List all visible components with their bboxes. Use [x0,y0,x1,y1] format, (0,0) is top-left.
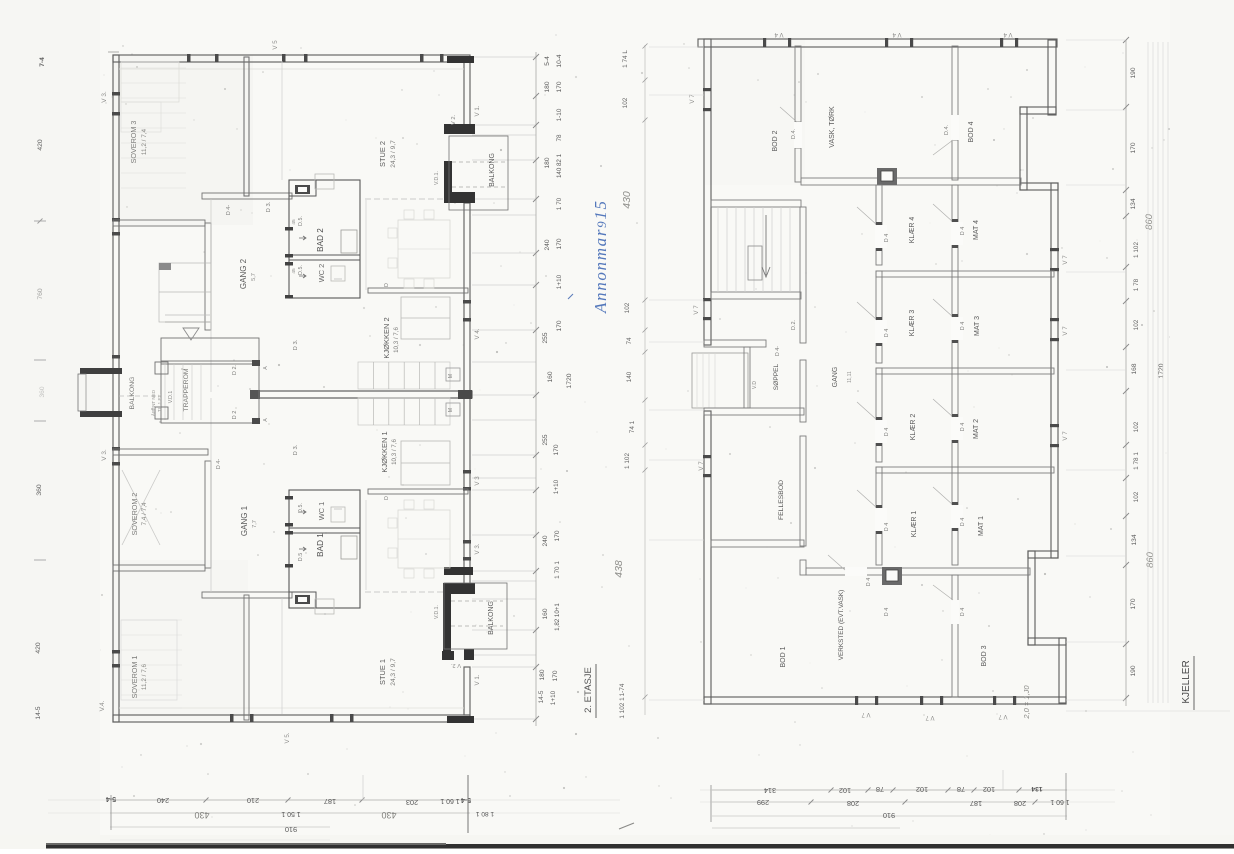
wall: right step h [1028,638,1066,645]
svg-text:187: 187 [324,797,336,806]
svg-text:210: 210 [247,796,259,805]
wall: verksted/bod3 [952,575,958,697]
bathtub bad2 [341,230,357,253]
svg-text:V.D: V.D [752,381,758,389]
svg-text:V 7: V 7 [1062,255,1069,265]
wall: right step b [1020,107,1056,114]
svg-text:360: 360 [36,484,43,496]
svg-text:240: 240 [544,239,551,250]
svg-text:910: 910 [883,811,895,820]
svg-text:102: 102 [916,785,928,794]
wall: klaer/mat r4 [952,467,958,565]
svg-text:74: 74 [626,337,633,345]
svg-text:11,2 / 7,6: 11,2 / 7,6 [141,663,148,690]
svg-text:KJØKKEN 2: KJØKKEN 2 [382,317,391,358]
svg-text:180: 180 [544,81,551,92]
wall: klaer/mat r1 [952,185,958,271]
svg-text:M: M [448,408,454,412]
svg-text:7,7: 7,7 [252,520,258,528]
svg-text:V.D.1: V.D.1 [168,391,174,404]
svg-text:KLÆR 1: KLÆR 1 [911,511,918,538]
window jambs top wall [187,54,191,62]
svg-text:BALKONG: BALKONG [129,377,136,410]
svg-text:D 4: D 4 [960,608,966,616]
wall: soverom3 bottom [113,220,205,226]
left balcony [80,368,122,374]
wall: bottom outer [113,715,470,722]
closet top [289,180,316,196]
faint boundary stue1/gang zone [281,598,283,714]
svg-text:420: 420 [35,642,42,654]
bottom rows left plan (rotated 180) [110,799,470,801]
scan artifacts: faint bands [0,0,100,849]
faint extension lines left plan [472,56,536,58]
svg-text:SOVEROM 1: SOVEROM 1 [130,656,139,699]
svg-text:V 7: V 7 [698,461,705,471]
party wall junction left end [250,390,260,399]
wall: fellesbod/bod1 [711,540,804,547]
wall: soverom2 top [113,449,208,455]
wardrobe boxes [159,263,211,322]
svg-text:BOD 2: BOD 2 [772,130,779,151]
svg-text:190: 190 [1130,67,1137,78]
svg-text:D 4: D 4 [960,227,966,235]
svg-text:V.D.1.: V.D.1. [434,171,440,185]
svg-text:78: 78 [556,134,563,142]
chair [424,210,434,219]
svg-text:140: 140 [626,371,633,382]
wall: right outer a [1048,40,1056,115]
wall: bod2/vask lower [795,148,801,182]
svg-text:MAT 2: MAT 2 [973,419,980,439]
svg-text:VASK, TØRK: VASK, TØRK [829,106,836,148]
svg-text:V 5: V 5 [272,40,279,50]
faint boundary stue2/gang zone [281,61,283,180]
svg-text:V 7: V 7 [1062,326,1069,336]
svg-text:45: 45 [291,268,297,274]
duct nub 2 [315,599,334,614]
svg-text:KJELLER: KJELLER [1181,660,1192,703]
svg-text:D.4.: D.4. [944,124,950,135]
kjeller right dim line + ticks [1125,40,1127,706]
chair [424,569,434,578]
svg-text:KJØKKEN 1: KJØKKEN 1 [380,431,389,472]
svg-text:A: A [263,366,269,370]
svg-text:BOD 4: BOD 4 [968,121,975,142]
stray pen mark [619,823,634,829]
svg-text:170: 170 [554,530,561,541]
svg-text:D.5.: D.5. [298,265,304,275]
svg-text:134: 134 [1131,534,1138,545]
svg-text:ÅPENT NED: ÅPENT NED [150,389,156,416]
M box top [446,368,460,381]
chimney box bottom [882,567,902,585]
svg-text:1 80 1: 1 80 1 [476,810,495,817]
svg-text:1 102: 1 102 [1133,242,1140,258]
wall: klaer left r3 [876,368,882,462]
svg-text:V 3.: V 3. [101,449,108,461]
faint kitchen2 left edge [365,200,367,290]
svg-text:V 4: V 4 [892,31,902,37]
svg-text:SØPPEL: SØPPEL [773,363,780,390]
wall: right outer g [1028,551,1035,645]
wall: kjokken1/stue1 [368,489,468,494]
scan speckles [416,143,418,145]
corner registration ticks [108,51,119,53]
svg-text:BOD 3: BOD 3 [981,645,988,666]
svg-text:102: 102 [624,302,631,313]
svg-text:STUE 2: STUE 2 [378,141,387,167]
wall: soverom2 bottom [113,565,205,571]
svg-text:170: 170 [1130,142,1137,153]
svg-text:KLÆR 2: KLÆR 2 [910,414,917,441]
wall: row2/row3 [876,368,1054,374]
svg-text:STUE 1: STUE 1 [378,659,387,685]
svg-text:24,3 / 9,7: 24,3 / 9,7 [390,140,397,168]
chair [404,279,414,288]
wall: right outer lower [464,667,470,715]
svg-text:D 4: D 4 [960,518,966,526]
svg-text:V 1.: V 1. [474,674,481,685]
svg-text:134: 134 [1031,785,1043,792]
kjeller left dim line [644,45,646,715]
kitchen cabinets [358,362,450,389]
wall: gang1 bottom [202,592,292,598]
wc2 toilet [331,266,345,281]
dark bottom-right corner [447,716,474,723]
svg-text:SOVEROM 3: SOVEROM 3 [129,121,138,164]
svg-text:45: 45 [291,219,297,225]
svg-text:BOD 1: BOD 1 [780,646,787,667]
svg-text:2. ETASJE: 2. ETASJE [583,667,594,713]
svg-text:1 102: 1 102 [624,453,631,469]
svg-text:1,82 10+1: 1,82 10+1 [554,603,561,631]
svg-text:D.5: D.5 [298,553,304,561]
X cross soverom2 [122,470,160,545]
svg-text:1-10: 1-10 [556,108,563,121]
svg-text:430: 430 [381,810,396,820]
svg-text:MAT 4: MAT 4 [973,220,980,240]
svg-text:D: D [384,283,390,287]
svg-text:160: 160 [542,608,549,619]
M box bottom [446,403,460,416]
wall: top outer kjeller [698,39,1057,47]
bottom rows kjeller (rotated 180) [712,789,1067,791]
wc1 toilet [331,507,345,522]
svg-text:D.4.: D.4. [791,128,797,139]
wall: gang2 left upper [205,223,211,330]
svg-text:SOVEROM 2: SOVEROM 2 [130,493,139,536]
dark top-right corner [447,56,474,63]
stue1 window wall dark [444,567,473,575]
svg-text:D 4: D 4 [884,608,890,616]
svg-text:V 3.: V 3. [474,543,481,554]
svg-text:180: 180 [544,157,551,168]
svg-text:5-4: 5-4 [461,796,471,804]
svg-text:KLÆR 4: KLÆR 4 [909,217,916,244]
wall: bod2/vask upper [795,46,801,122]
wall: vask/bod4 upper [952,46,958,118]
wall: verksted top [806,568,1030,575]
wall: soverom1/stue1 [244,595,249,720]
svg-text:240: 240 [157,796,169,805]
faint furniture [121,62,179,102]
svg-text:D: D [384,496,390,500]
chair [424,500,434,509]
svg-text:1 60 1: 1 60 1 [440,797,459,804]
faint ceiling line bottom [119,707,464,709]
wall: right outer i [1059,638,1066,703]
svg-text:1 70 1: 1 70 1 [554,561,561,579]
svg-text:102: 102 [1133,319,1140,330]
svg-text:1-74: 1-74 [619,683,626,696]
svg-text:V 2.: V 2. [451,114,457,125]
wall: corridor left mid [800,360,806,422]
chair [388,228,397,238]
svg-text:760: 760 [37,288,44,300]
svg-text:TRAPPEROM: TRAPPEROM [183,368,190,411]
wall: soverom3/stue2 [244,57,249,196]
svg-text:420: 420 [37,139,44,151]
closet hatch [295,185,310,194]
wall: right outer e [1051,183,1058,558]
svg-text:10,3 / 7,6: 10,3 / 7,6 [391,439,398,465]
svg-text:V 3.: V 3. [101,91,108,103]
bathtub bad1 [341,536,357,559]
svg-text:D 4-: D 4- [775,346,781,356]
right margin faint vertical lines [1147,42,1149,703]
wall: gang1 left [205,461,211,568]
svg-text:MAT 1: MAT 1 [978,516,985,536]
faint gang1 boundary [210,398,212,592]
wall: right outer upper [464,62,470,125]
kitchen1 fixtures [401,441,450,485]
wall: soppel/porch [744,347,750,408]
svg-text:430: 430 [621,191,633,209]
svg-text:V 3: V 3 [474,476,481,486]
svg-text:7,4 / 7,4: 7,4 / 7,4 [141,502,148,526]
svg-text:1720: 1720 [1158,363,1165,378]
wall: klaer/mat r3 [952,368,958,467]
wall: corridor top [801,178,1021,185]
svg-text:M: M [448,374,454,378]
svg-text:V.D.1.: V.D.1. [434,605,440,619]
svg-text:24,3 / 9,7: 24,3 / 9,7 [390,658,397,686]
wall: soppel bottom [704,408,804,415]
svg-text:160: 160 [547,371,554,382]
svg-text:V 1.: V 1. [474,105,481,116]
window jambs left wall [112,92,120,96]
bottom scan edge [46,844,1234,849]
svg-text:V 7: V 7 [861,711,871,717]
duct nub [315,174,334,189]
faint kitchen1 left edge [365,500,367,590]
svg-text:D.5.: D.5. [298,503,304,513]
svg-text:187: 187 [970,799,982,808]
svg-text:VERKSTED (EVT.VASK): VERKSTED (EVT.VASK) [838,590,845,661]
svg-text:7-4: 7-4 [39,57,46,67]
svg-text:170: 170 [553,444,560,455]
wall: right step f [1028,551,1058,558]
svg-text:D 3.: D 3. [293,444,299,455]
chimney box top [877,168,897,185]
svg-text:GANG 2: GANG 2 [239,258,248,289]
wall: row3/row4 [876,467,1054,473]
svg-text:11,11: 11,11 [847,371,853,383]
svg-text:430: 430 [194,810,209,820]
svg-text:170: 170 [556,81,563,92]
trapperom [161,338,259,364]
svg-text:BAD 2: BAD 2 [316,228,325,252]
svg-text:WC 2: WC 2 [317,264,326,282]
svg-text:MAT 3: MAT 3 [974,316,981,336]
svg-text:10-4: 10-4 [556,54,563,68]
bad1/wc1 partition [289,528,360,533]
wall: stue2/kjokken2 [368,288,468,293]
svg-text:2,0 × 1,J0: 2,0 × 1,J0 [1022,685,1031,720]
svg-text:D 4: D 4 [884,523,890,531]
svg-text:299: 299 [757,798,769,807]
svg-text:Annonmar915: Annonmar915 [591,201,610,314]
wall: row1/row2 [876,271,1054,277]
svg-text:V 7: V 7 [693,305,700,315]
svg-text:1 78 1: 1 78 1 [1133,452,1140,470]
svg-text:102: 102 [839,786,851,795]
svg-text:V 7: V 7 [925,714,935,720]
wall: corridor left upper [800,207,806,343]
svg-text:D 4: D 4 [960,322,966,330]
svg-text:FELLESBOD: FELLESBOD [778,480,785,520]
svg-text:1+10: 1+10 [553,479,560,494]
chair [388,518,397,528]
wall: corridor left lower [800,436,806,546]
svg-text:BAD 1: BAD 1 [316,533,325,557]
svg-text:74 1: 74 1 [629,420,636,433]
wall: right outer c [1020,107,1027,190]
svg-text:1 74 L: 1 74 L [622,50,629,68]
dashed beam stue1 [365,591,444,593]
kitchen2 fixtures [401,297,450,339]
dimension line left plan right [535,52,537,726]
party wall junction at right wall [458,390,472,399]
svg-text:D 4-: D 4- [216,459,222,470]
wall: soppel top [704,340,766,347]
window jambs right wall [463,300,471,304]
svg-text:D 2: D 2 [232,411,238,420]
svg-text:102: 102 [622,97,629,108]
window jambs kjeller [703,88,711,91]
svg-text:255: 255 [542,434,549,445]
svg-text:V 4: V 4 [1003,31,1013,37]
svg-text:D.2.: D.2. [791,319,797,330]
faint streaks bottom dim area [48,799,620,801]
door swings kjeller [875,225,887,248]
svg-text:860: 860 [1145,551,1156,568]
svg-text:78: 78 [957,785,965,794]
chair [404,500,414,509]
chair [388,258,397,268]
wall: right step d [1020,183,1058,190]
svg-text:V 7: V 7 [1062,431,1069,441]
svg-text:102: 102 [1133,491,1140,502]
svg-text:WC 1: WC 1 [317,502,326,520]
svg-text:BALKONG: BALKONG [488,601,495,635]
svg-text:D 4: D 4 [884,234,890,242]
scan washes [113,55,253,225]
svg-text:255: 255 [542,332,549,343]
svg-text:168: 168 [1131,363,1138,374]
chair [404,210,414,219]
wall: klaer left r4 [876,467,882,565]
wall: klaer left r1 [876,185,882,265]
svg-text:1+10: 1+10 [550,690,557,705]
svg-text:1 102 1: 1 102 1 [619,697,626,719]
svg-text:170: 170 [1130,598,1137,609]
chair [404,569,414,578]
svg-text:102: 102 [983,785,995,794]
svg-text:102: 102 [1133,421,1140,432]
svg-text:V.4.: V.4. [99,700,106,711]
svg-text:BALKONG: BALKONG [489,153,496,187]
svg-text:V 7: V 7 [998,713,1008,719]
faint ceiling line top [119,68,464,70]
svg-text:D 2.: D 2. [232,364,238,375]
svg-text:1 50 1: 1 50 1 [281,810,300,817]
svg-text:D.5.: D.5. [298,216,304,226]
svg-text:910: 910 [285,825,297,834]
svg-text:14-5: 14-5 [538,690,545,703]
svg-text:1 60 1: 1 60 1 [1050,798,1069,805]
wall: vask/bod4 lower [952,140,958,180]
svg-text:V 4.: V 4. [474,328,481,339]
wall: left outer lower [704,411,711,704]
bad2/wc2 partition [289,255,360,260]
svg-text:D 4-: D 4- [226,205,232,216]
svg-text:V 5.: V 5. [284,732,291,743]
svg-text:14-5: 14-5 [35,706,42,720]
svg-text:1720: 1720 [566,373,573,388]
svg-text:170: 170 [552,670,559,681]
svg-text:GANG: GANG [832,367,839,388]
wall: klaer/mat r2 [952,271,958,368]
wall: bottom outer kjeller [704,697,1066,704]
svg-text:D 4: D 4 [884,428,890,436]
svg-text:190: 190 [1130,665,1137,676]
svg-text:A: A [263,418,269,422]
svg-text:438: 438 [613,560,625,578]
wall: klaer left r2 [876,271,882,363]
wall: top outer [113,55,470,62]
svg-text:D 3.: D 3. [293,339,299,350]
svg-text:D 4: D 4 [866,578,872,586]
bad2/wc2 block [289,180,360,298]
svg-text:11,2 / 7,4: 11,2 / 7,4 [141,128,148,155]
bad1/wc1 block [289,490,360,608]
svg-text:180: 180 [539,669,546,680]
svg-text:170: 170 [556,238,563,249]
svg-text:5,7: 5,7 [251,273,257,281]
svg-text:KLÆR 3: KLÆR 3 [909,310,916,337]
faint gang2 boundary [210,199,212,392]
svg-text:1+10: 1+10 [556,274,563,289]
svg-text:140 82 1: 140 82 1 [556,153,563,178]
svg-text:240: 240 [542,535,549,546]
svg-text:134: 134 [1130,198,1137,209]
svg-text:10,3 / 7,6: 10,3 / 7,6 [393,327,400,353]
svg-text:D 3.: D 3. [266,201,272,212]
svg-text:5-4: 5-4 [544,56,551,66]
svg-text:D 4: D 4 [960,423,966,431]
